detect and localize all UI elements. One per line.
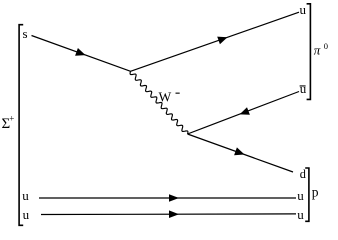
svg-text:W: W bbox=[159, 90, 172, 105]
svg-text:u: u bbox=[300, 2, 307, 17]
right bracket proton bbox=[305, 168, 309, 221]
svg-text:+: + bbox=[9, 114, 14, 124]
svg-text:u: u bbox=[300, 81, 307, 96]
svg-text:u: u bbox=[297, 188, 304, 203]
wire u-quark line from vertex 1 to pi0 bbox=[131, 12, 300, 71]
svg-text:d: d bbox=[300, 167, 306, 181]
wire u-bar line from vertex 2 bbox=[188, 92, 300, 135]
svg-text:p: p bbox=[312, 185, 319, 200]
boson W- wavy line vertex1 to vertex2 bbox=[130, 72, 188, 135]
arrow on spectator line 2 bbox=[169, 210, 179, 218]
left bracket (Sigma+ baryon) bbox=[19, 25, 23, 226]
svg-text:s: s bbox=[23, 26, 28, 41]
arrow on u line bbox=[217, 37, 227, 45]
arrow on s line bbox=[75, 48, 85, 56]
svg-text:0: 0 bbox=[324, 41, 328, 51]
wire d-quark line from vertex 2 bbox=[188, 134, 294, 172]
wire spectator u quark line 2 bbox=[41, 213, 296, 216]
arrow on d line bbox=[234, 147, 244, 155]
wire spectator u quark line 1 bbox=[39, 197, 296, 199]
wire s-quark line to vertex 1 bbox=[32, 36, 131, 72]
svg-text:u: u bbox=[297, 207, 304, 222]
svg-text:u: u bbox=[23, 207, 30, 222]
right bracket pi0 meson bbox=[307, 4, 311, 100]
svg-text:π: π bbox=[314, 43, 321, 58]
svg-text:u: u bbox=[22, 188, 29, 203]
arrow on spectator line 1 bbox=[169, 194, 179, 202]
arrow on u-bar line (pointing back to vertex) bbox=[240, 107, 250, 115]
